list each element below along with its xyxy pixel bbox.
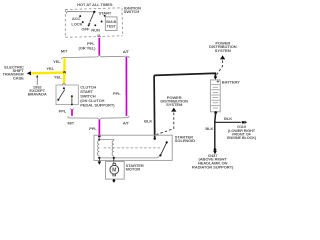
wire PPL from ignition — [98, 38, 100, 55]
svg-text:PEDAL SUPPORT): PEDAL SUPPORT) — [80, 103, 115, 108]
note pointer 1992 except bravada — [36, 77, 38, 85]
wire to starter motor — [113, 158, 115, 164]
svg-text:BATTERY: BATTERY — [222, 80, 240, 85]
wire YEL to clutch switch — [63, 73, 66, 84]
svg-text:SYSTEM: SYSTEM — [166, 102, 183, 107]
pull-in winding — [98, 141, 100, 157]
svg-text:LOCK: LOCK — [71, 21, 82, 26]
battery B1 — [210, 80, 220, 112]
merge brace — [68, 116, 129, 120]
svg-text:CASE: CASE — [13, 75, 24, 80]
svg-text:PPL: PPL — [59, 108, 67, 113]
svg-text:TEST: TEST — [107, 24, 117, 28]
svg-text:RUN: RUN — [91, 28, 100, 33]
starter motor box — [106, 161, 125, 179]
svg-text:A/T: A/T — [123, 120, 130, 125]
wire PPL A/T branch — [125, 57, 127, 116]
svg-text:M: M — [112, 168, 116, 174]
wire YEL to transfer case — [31, 71, 64, 74]
clutch start switch box — [56, 85, 78, 105]
solenoid contact blade — [160, 142, 166, 155]
svg-text:MOTOR: MOTOR — [126, 167, 141, 172]
svg-text:SYSTEM: SYSTEM — [215, 48, 232, 53]
arrow to electric shift transfer case — [27, 71, 31, 75]
bulb test box — [105, 17, 117, 31]
ground G119 — [242, 121, 245, 124]
hold-in winding — [112, 141, 114, 157]
wire YEL from brace — [63, 58, 66, 72]
ignition feed line with hook — [66, 12, 94, 14]
battery plus — [217, 80, 219, 82]
svg-text:YEL: YEL — [53, 59, 61, 64]
svg-text:(OR YEL): (OR YEL) — [79, 45, 97, 50]
clutch switch contact — [63, 87, 65, 89]
svg-text:HOT AT ALL TIMES: HOT AT ALL TIMES — [77, 2, 113, 7]
motor M1 — [110, 165, 119, 174]
node B — [93, 11, 95, 13]
svg-text:SWITCH: SWITCH — [124, 9, 140, 14]
clutch switch blade — [58, 90, 64, 100]
starter solenoid box — [94, 135, 172, 160]
svg-text:YEL: YEL — [46, 66, 54, 71]
solenoid input node — [98, 138, 100, 140]
battery negative node — [214, 111, 217, 114]
svg-text:A/T: A/T — [123, 49, 130, 54]
motor bottom node — [113, 179, 115, 183]
ignition switch dashed box — [65, 8, 122, 38]
svg-text:START: START — [99, 11, 112, 16]
solenoid contact input — [154, 138, 156, 140]
wiper arm — [90, 12, 95, 22]
wire BLK to G437 — [214, 122, 216, 149]
svg-text:BLK: BLK — [144, 118, 152, 123]
svg-text:OFF: OFF — [81, 27, 89, 32]
clutch switch output — [71, 95, 73, 97]
solenoid bus — [99, 156, 160, 158]
ground G437 — [214, 148, 217, 151]
svg-text:YEL: YEL — [54, 74, 62, 79]
split brace — [61, 55, 129, 59]
svg-text:M/T: M/T — [68, 120, 75, 125]
svg-text:BLK: BLK — [224, 116, 232, 121]
battery cable from solenoid — [154, 73, 215, 76]
winding link — [99, 140, 114, 141]
wire PPL from clutch switch — [71, 109, 73, 115]
linkage dashed — [104, 147, 161, 149]
svg-text:ACC: ACC — [72, 16, 81, 21]
svg-text:PPL: PPL — [89, 126, 97, 131]
svg-text:SOLENOID: SOLENOID — [175, 138, 196, 143]
solenoid case ground — [98, 159, 100, 161]
svg-text:RADIATOR SUPPORT): RADIATOR SUPPORT) — [192, 164, 234, 169]
svg-text:M/T: M/T — [61, 49, 68, 54]
wire PPL to solenoid — [98, 120, 100, 136]
svg-text:PPL: PPL — [113, 91, 121, 96]
svg-text:BRAVADA: BRAVADA — [28, 92, 47, 97]
svg-text:ENGINE BLOCK): ENGINE BLOCK) — [227, 136, 257, 140]
junction — [63, 71, 66, 74]
svg-text:BLK: BLK — [205, 126, 213, 131]
wire BLK to G119 — [215, 113, 216, 123]
